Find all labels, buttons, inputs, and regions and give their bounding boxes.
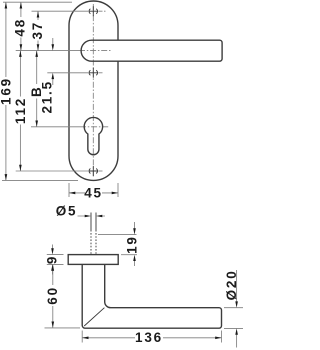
svg-text:169: 169 xyxy=(0,77,13,105)
extension lines for 45 dim xyxy=(69,183,118,197)
extension line cylinder axis xyxy=(31,126,80,128)
spindle hidden dotted lines xyxy=(91,233,96,254)
dimension 60 line xyxy=(52,264,54,327)
svg-text:60: 60 xyxy=(45,286,60,305)
centerline dashes right of screw 1 xyxy=(99,10,108,12)
extension line lever axis xyxy=(16,50,79,52)
dimension D20 line and arrows xyxy=(236,270,238,348)
euro profile cylinder hole xyxy=(84,117,102,154)
extension lines for D20 xyxy=(224,308,243,329)
extension line spindle end xyxy=(98,234,137,236)
centerline dashes right of screw 3 xyxy=(99,170,104,172)
extension line rose top right xyxy=(121,254,137,256)
elbow miter line xyxy=(84,308,104,326)
extension line plate bottom xyxy=(2,179,78,181)
svg-text:9: 9 xyxy=(45,255,60,264)
lever handle (front view) xyxy=(81,40,222,61)
dimension 19 line (arrows outside) xyxy=(134,222,136,266)
dimension 45 line xyxy=(69,192,118,194)
svg-text:21.5: 21.5 xyxy=(40,80,55,113)
extension line lever bottom left xyxy=(45,327,81,329)
centerline dashes right of screw 2 xyxy=(99,72,104,74)
extension lines for 136 xyxy=(82,331,221,343)
svg-text:112: 112 xyxy=(13,97,28,124)
dimension 48 line xyxy=(20,2,22,50)
backplate outline (front view stadium plate) xyxy=(69,1,118,180)
cylinder horizontal centerline xyxy=(80,126,109,128)
extension line screw hole 1 xyxy=(32,10,89,12)
svg-text:Ø5: Ø5 xyxy=(56,204,78,219)
dimension 169 line xyxy=(5,2,7,180)
handle side view outline (neck + lever) xyxy=(82,264,221,328)
dimension 9 ticks xyxy=(47,255,64,265)
extension line plate top xyxy=(3,1,72,3)
svg-text:136: 136 xyxy=(135,330,163,345)
svg-text:Ø20: Ø20 xyxy=(224,269,239,300)
screw hole 1 xyxy=(89,6,99,16)
screw hole 2 xyxy=(89,68,99,78)
dimension 112 line xyxy=(19,51,21,171)
dimension D5 leader and arrows xyxy=(78,215,106,217)
spindle solid lines xyxy=(91,213,96,232)
lever centerline dash-dot xyxy=(79,50,111,52)
svg-text:37: 37 xyxy=(30,21,45,40)
dimension 37 line xyxy=(37,11,39,50)
plate vertical centerline xyxy=(92,4,94,178)
svg-text:48: 48 xyxy=(13,18,28,37)
extension line screw hole 2 xyxy=(47,72,88,74)
dimension B line xyxy=(36,51,38,127)
screw hole 3 xyxy=(89,166,99,176)
dimension 9 arrows xyxy=(52,245,54,275)
svg-text:45: 45 xyxy=(84,185,103,200)
dimension 21.5 line (arrows outside) xyxy=(52,38,54,85)
extension line screw hole 3 xyxy=(16,170,88,172)
svg-text:19: 19 xyxy=(124,235,139,254)
rose (side view) xyxy=(68,255,118,265)
dimension 136 line xyxy=(82,337,221,339)
